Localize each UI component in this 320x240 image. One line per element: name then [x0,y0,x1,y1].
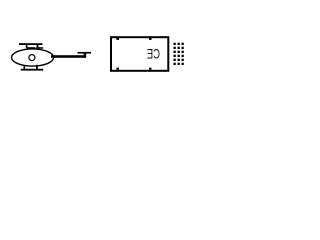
cabin top bar left segment [27,47,36,49]
left skid leg [24,66,26,70]
bottom-left corner tab [116,68,119,70]
dot grid right of box [174,43,184,65]
cabin top bar right segment [36,47,43,49]
right mast tick [37,45,39,49]
top-left corner tab [116,38,119,40]
CE label box [111,37,168,71]
left mast tick [26,45,28,49]
tail stabilizer bar [78,52,92,54]
skid bar [21,69,43,71]
helicopter fuselage ellipse [12,49,54,66]
right skid leg [36,65,38,70]
top-right corner tab [149,38,152,40]
tail fin riser [84,53,87,57]
tail boom [51,55,86,58]
bottom-right corner tab [149,68,152,70]
svg-text:CE: CE [147,47,160,62]
helicopter main rotor bar [19,43,43,45]
rotor hub circle [29,55,35,61]
